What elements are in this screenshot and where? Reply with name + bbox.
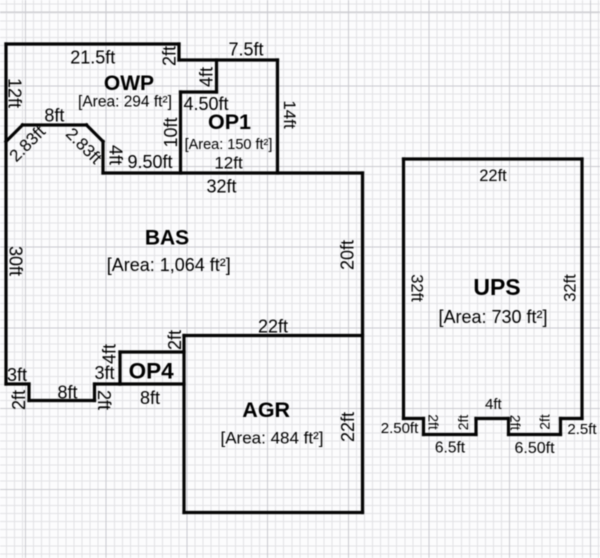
svg-text:4ft: 4ft <box>99 344 119 364</box>
svg-text:2.83ft: 2.83ft <box>62 124 106 168</box>
wall step 2ft up <box>93 384 96 401</box>
svg-text:32ft: 32ft <box>206 177 236 197</box>
svg-text:9.50ft: 9.50ft <box>127 152 172 172</box>
wall UPS notch2 left 2ft <box>507 419 510 435</box>
svg-text:2ft: 2ft <box>159 46 179 66</box>
svg-text:[Area: 294 ft²]: [Area: 294 ft²] <box>78 94 172 111</box>
wall OP1 right 14ft <box>276 60 279 173</box>
wall BAS bottom 22ft / AGR top <box>184 334 363 337</box>
wall 2ft step right of OWP <box>177 44 180 60</box>
wall OP4 left <box>118 352 121 384</box>
wall AGR bottom <box>184 511 363 514</box>
wall UPS notch1 bottom 6.5ft <box>424 433 477 436</box>
wall notch horizontal 4.50ft <box>181 90 217 93</box>
svg-text:8ft: 8ft <box>140 388 160 408</box>
svg-text:[Area: 1,064 ft²]: [Area: 1,064 ft²] <box>107 255 231 275</box>
wall step 2ft down <box>27 384 30 401</box>
svg-text:22ft: 22ft <box>258 317 288 337</box>
svg-text:2ft: 2ft <box>426 414 442 430</box>
svg-text:BAS: BAS <box>145 227 189 250</box>
svg-text:2.50ft: 2.50ft <box>381 420 419 437</box>
wall diagonal 2.83ft right <box>87 125 104 142</box>
wall step 3ft bottom left <box>6 382 29 385</box>
wall OP4 bottom <box>120 382 184 385</box>
wall OWP top 21.5ft <box>6 42 179 45</box>
svg-text:6.50ft: 6.50ft <box>514 440 555 457</box>
svg-text:14ft: 14ft <box>280 100 299 129</box>
svg-text:2ft: 2ft <box>508 415 524 431</box>
svg-text:2.5ft: 2.5ft <box>567 421 597 438</box>
svg-text:32ft: 32ft <box>561 274 579 302</box>
wall UPS notch1 left 2ft <box>422 419 425 435</box>
wall OP4 top <box>120 350 184 353</box>
svg-text:30ft: 30ft <box>5 246 25 276</box>
svg-text:AGR: AGR <box>242 398 290 422</box>
svg-text:[Area: 150 ft²]: [Area: 150 ft²] <box>185 137 273 153</box>
svg-text:[Area: 484 ft²]: [Area: 484 ft²] <box>221 429 324 448</box>
wall UPS top <box>404 157 583 160</box>
svg-text:32ft: 32ft <box>408 274 426 302</box>
svg-text:22ft: 22ft <box>479 167 507 185</box>
svg-text:2ft: 2ft <box>455 415 471 431</box>
wall 8ft horizontal OWP <box>23 123 87 126</box>
wall step 3ft right <box>95 382 121 385</box>
wall OWP right 10ft <box>179 92 182 173</box>
wall UPS notch1 right 2ft <box>474 419 477 435</box>
wall OWP 4ft vertical <box>101 142 104 174</box>
svg-text:7.5ft: 7.5ft <box>228 40 263 60</box>
svg-text:2ft: 2ft <box>94 390 114 410</box>
svg-text:2ft: 2ft <box>9 390 29 410</box>
svg-text:3ft: 3ft <box>7 365 27 385</box>
svg-text:22ft: 22ft <box>338 412 358 442</box>
svg-text:8ft: 8ft <box>57 383 77 403</box>
wall UPS middle 4ft <box>476 417 509 420</box>
svg-text:OP1: OP1 <box>208 110 251 134</box>
wall AGR left with OP4 right and 2ft <box>182 336 185 513</box>
svg-text:OP4: OP4 <box>129 359 175 384</box>
wall UPS bottom ledge right 2.5ft <box>561 417 583 420</box>
svg-text:8ft: 8ft <box>44 106 64 126</box>
wall UPS right <box>580 159 583 419</box>
svg-text:6.5ft: 6.5ft <box>435 440 466 457</box>
wall notch vertical 4ft <box>215 60 218 92</box>
wall left outer 12ft+30ft <box>4 44 7 384</box>
svg-text:4ft: 4ft <box>485 396 503 413</box>
wall UPS bottom ledge left 2.50ft <box>404 417 424 420</box>
wall UPS notch2 right 2ft <box>559 419 562 435</box>
svg-text:12ft: 12ft <box>214 154 243 173</box>
svg-text:UPS: UPS <box>473 274 520 300</box>
svg-text:4ft: 4ft <box>196 67 216 87</box>
wall BAS top 32ft <box>103 171 363 174</box>
wall diagonal 2.83ft left <box>6 125 23 142</box>
wall step 8ft <box>29 399 95 402</box>
svg-text:OWP: OWP <box>104 72 154 95</box>
svg-text:2ft: 2ft <box>165 330 185 350</box>
wall UPS left <box>402 159 405 419</box>
svg-text:2ft: 2ft <box>537 414 553 430</box>
svg-text:2.83ft: 2.83ft <box>6 122 50 166</box>
svg-text:12ft: 12ft <box>5 78 25 108</box>
svg-text:4ft: 4ft <box>106 145 126 165</box>
svg-text:3ft: 3ft <box>94 363 114 383</box>
svg-text:21.5ft: 21.5ft <box>70 48 115 68</box>
svg-text:20ft: 20ft <box>337 240 357 270</box>
svg-text:[Area: 730 ft²]: [Area: 730 ft²] <box>438 307 547 327</box>
svg-text:10ft: 10ft <box>161 117 181 147</box>
wall UPS notch2 bottom 6.50ft <box>509 433 561 436</box>
wall BAS+AGR right <box>361 173 364 513</box>
wall y60 top of OP1 <box>179 58 278 61</box>
